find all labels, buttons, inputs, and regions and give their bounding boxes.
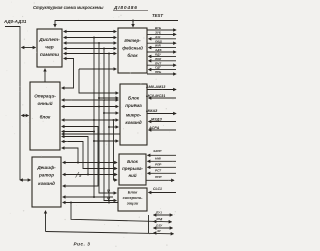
wire B2 to B1	[44, 69, 46, 82]
block U3 interrupt block	[119, 154, 146, 185]
wire B3 row y197	[63, 196, 113, 198]
svg-text:МС0-МС31: МС0-МС31	[146, 94, 165, 98]
block U2 microcommand receive block	[120, 84, 147, 145]
node TEST junction	[132, 20, 134, 22]
title chip name	[113, 5, 138, 11]
svg-text:Операци-: Операци-	[34, 94, 56, 99]
wire row B3-U3 y162.5	[63, 162, 117, 164]
svg-text:чер: чер	[45, 46, 53, 51]
svg-text:ПУ1: ПУ1	[156, 211, 162, 215]
svg-text:Дешиф-: Дешиф-	[36, 164, 56, 170]
svg-text:ЛОК: ЛОК	[154, 57, 162, 61]
title	[33, 5, 104, 10]
svg-text:ОЗУ: ОЗУ	[156, 224, 163, 228]
svg-text:приёма: приёма	[125, 103, 142, 108]
wire to U3 row180	[114, 120, 118, 180]
svg-text:АДS: АДS	[154, 48, 161, 52]
svg-text:ОВД: ОВД	[155, 39, 163, 43]
wire B3 bottom feed up	[45, 211, 47, 232]
arrow on rail y221.5	[154, 221, 157, 223]
wire staircase st1	[62, 127, 98, 187]
wire staircase st4 to U3	[62, 142, 117, 169]
label bus width 8	[79, 174, 81, 178]
svg-text:ММАЗ: ММАЗ	[146, 109, 158, 113]
svg-text:Блок: Блок	[127, 159, 139, 164]
wire AD bus trunk	[5, 27, 20, 181]
svg-text:прерыва-: прерыва-	[122, 166, 143, 171]
wire rail B1-U1 #3	[64, 42, 116, 44]
wire branch U2 row113	[104, 112, 118, 114]
svg-text:памяти: памяти	[40, 53, 59, 58]
svg-text:ППР: ППР	[155, 175, 162, 179]
wire rail B2-U2 y106.5	[62, 106, 118, 108]
svg-text:АД0-АД31: АД0-АД31	[3, 19, 27, 24]
svg-text:Блок: Блок	[128, 96, 140, 101]
wire rail B1-U1 #5	[64, 53, 116, 55]
arrow on rail y233	[154, 232, 157, 234]
svg-text:Интер-: Интер-	[124, 38, 141, 43]
svg-text:блок: блок	[40, 114, 51, 120]
wire v99 trunk to U4 phi1	[99, 43, 116, 193]
svg-text:А31: А31	[154, 35, 161, 39]
svg-text:АМ0-АМ13: АМ0-АМ13	[145, 85, 166, 89]
wire stub to U1 bottom-left	[79, 68, 116, 70]
wire B3 row y202.5	[63, 202, 118, 204]
wire branch U2 row141	[94, 140, 118, 142]
svg-text:РДУ: РДУ	[155, 53, 162, 57]
wire staircase st3	[62, 137, 88, 175]
svg-text:Рис. 3: Рис. 3	[74, 242, 91, 247]
title underline	[113, 9, 148, 11]
svg-text:Структурная схема микросхемы: Структурная схема микросхемы	[33, 5, 104, 10]
svg-text:Диспет-: Диспет-	[38, 37, 60, 43]
wire v94 trunk	[93, 38, 95, 198]
block B1 memory dispatcher	[37, 29, 62, 67]
wire elbow to U2 row93	[79, 69, 118, 93]
svg-text:команд: команд	[38, 181, 55, 186]
svg-text:блок: блок	[127, 53, 138, 58]
wire bus to B3 (bidir)	[20, 179, 31, 181]
block B2 operational block	[30, 82, 60, 150]
wire fan row3	[154, 227, 173, 229]
wire v109 trunk to B3 row	[108, 54, 110, 203]
svg-text:ЗАПР: ЗАПР	[153, 149, 162, 153]
svg-text:ПРБ: ПРБ	[155, 70, 161, 74]
bus width slash	[76, 172, 80, 178]
label CLC	[153, 187, 162, 191]
label AD0-AD31 bus	[3, 19, 27, 24]
block U4 synchronization block	[118, 188, 147, 211]
svg-text:ф: ф	[107, 188, 110, 192]
wire branch U2 row98	[99, 97, 118, 99]
wire TEST stub to U1	[132, 21, 134, 27]
svg-text:РПР: РПР	[155, 162, 162, 166]
svg-text:ЗПД: ЗПД	[156, 217, 163, 221]
wire bottom rail y233 (slight scan tilt)	[46, 232, 174, 234]
wire TEST line	[55, 21, 178, 27]
svg-text:команд: команд	[125, 120, 142, 125]
wire staircase st2 joins v94	[62, 131, 94, 133]
wire rail B1-U1 #1	[64, 31, 116, 33]
wire bus to B2 (bidir)	[22, 115, 29, 117]
svg-text:микро-: микро-	[126, 113, 142, 118]
wire rail B2-U2 y120	[62, 119, 118, 121]
label TEST	[152, 13, 163, 18]
wire row B3-U3 y174.5	[63, 174, 117, 176]
wire rail B2-U2 y100	[62, 99, 118, 101]
svg-text:фейсный: фейсный	[122, 46, 143, 51]
wire branch U2 row127	[109, 126, 118, 128]
svg-text:ТЕSТ: ТЕSТ	[152, 13, 163, 18]
wire fan row1	[154, 214, 173, 216]
block U1 interface block	[118, 28, 147, 73]
svg-text:ф: ф	[107, 196, 110, 200]
caption	[74, 242, 91, 247]
wire rail B1-U1 #4	[64, 48, 116, 50]
svg-text:Блок: Блок	[128, 190, 139, 195]
svg-text:СLС1: СLС1	[153, 187, 162, 191]
svg-text:зации: зации	[127, 201, 139, 206]
U3 right signal rows	[153, 149, 162, 179]
svg-text:онный: онный	[37, 100, 52, 106]
svg-text:синхрони-: синхрони-	[123, 195, 144, 200]
svg-text:НМІ: НМІ	[155, 156, 161, 160]
label phi2	[107, 196, 110, 200]
wire CLK row	[149, 192, 177, 194]
wire bottom rail y221.5 (slight scan tilt)	[71, 203, 172, 222]
svg-text:АСРА: АСРА	[148, 126, 160, 130]
wire fan vertical	[148, 215, 150, 233]
svg-text:ний: ний	[128, 173, 136, 178]
svg-text:ВУБ: ВУБ	[155, 26, 161, 30]
U1 right signal rows	[147, 29, 176, 31]
svg-text:8: 8	[79, 174, 81, 178]
svg-text:ЗУБ: ЗУБ	[155, 31, 161, 35]
block B3 command decoder	[32, 157, 61, 207]
wire v104 trunk to U4 phi2	[104, 49, 116, 201]
svg-text:ратор: ратор	[38, 173, 54, 178]
wire rail B2-U2 y134	[62, 133, 120, 135]
wire bus to B1 (bidir)	[22, 47, 36, 49]
svg-text:МЗДЗ: МЗДЗ	[151, 117, 162, 121]
svg-text:W/R: W/R	[155, 44, 162, 48]
U2 right signal rows	[145, 85, 166, 130]
wire rail B1-U1 #2	[64, 37, 116, 39]
wire rail6 elbow B1 to B2	[62, 59, 74, 89]
wire staircase st5	[62, 148, 78, 163]
label phi1	[107, 188, 110, 192]
